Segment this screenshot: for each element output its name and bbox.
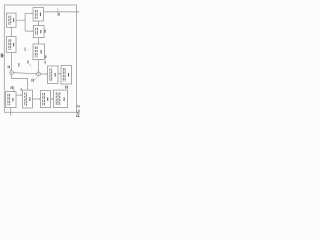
- svg-text:FIG. 2: FIG. 2: [76, 104, 80, 117]
